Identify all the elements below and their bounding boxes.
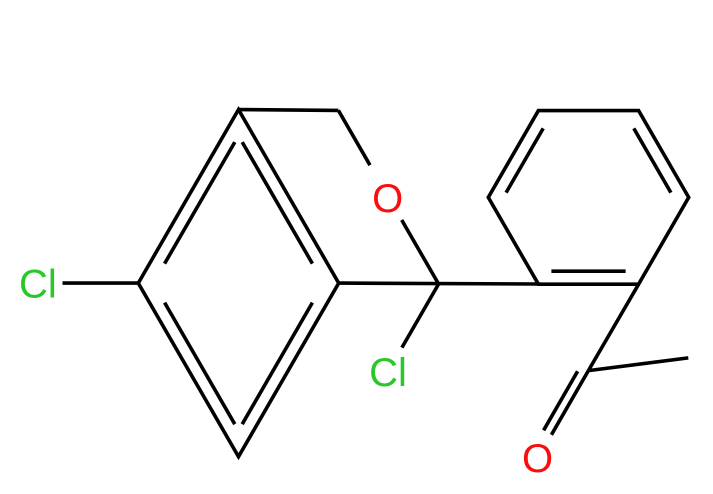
right ring aromatic inner line C-D [634, 128, 671, 192]
bond apex T to C adjacent to ether O [239, 108, 339, 112]
aromatic inner line upper-right [242, 142, 312, 264]
aromatic inner line lower-left [165, 303, 235, 425]
right ring aromatic inner line E-F [551, 269, 625, 273]
bond para Cl label to diamond left vertex [63, 281, 139, 285]
right benzene ring outline [488, 111, 688, 285]
bond ether O label to quaternary C (X) [402, 220, 439, 284]
long horizontal bond V0-X-F [339, 281, 539, 285]
aromatic inner line upper-left [165, 142, 235, 264]
carbonyl C=O main line to O label [551, 371, 588, 435]
right ring aromatic inner line A-B [506, 128, 543, 192]
bond C to ether O label [338, 110, 370, 165]
bond X to mid Cl label [402, 284, 439, 348]
bond carbonyl C to methyl [588, 358, 688, 371]
aromatic inner line lower-right [242, 303, 312, 425]
svg-text:Cl: Cl [369, 351, 407, 395]
carbonyl C=O second parallel line [544, 371, 578, 430]
fused benzo ring drawn as diamond outline [138, 110, 338, 457]
svg-text:O: O [372, 177, 403, 221]
svg-text:Cl: Cl [19, 263, 57, 307]
svg-text:O: O [522, 437, 553, 481]
bond ring E to carbonyl carbon [588, 284, 638, 370]
